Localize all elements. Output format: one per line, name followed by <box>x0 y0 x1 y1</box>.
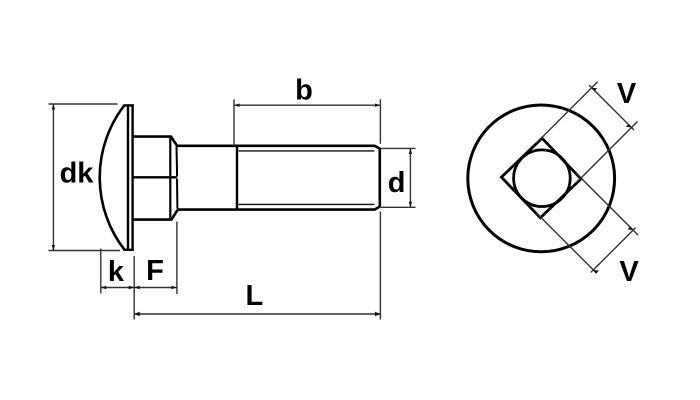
svg-text:k: k <box>108 256 125 288</box>
svg-text:dk: dk <box>60 158 95 190</box>
svg-text:V: V <box>617 78 637 110</box>
svg-text:b: b <box>295 75 313 107</box>
svg-text:F: F <box>146 255 164 287</box>
svg-text:d: d <box>388 167 406 199</box>
svg-text:L: L <box>245 280 263 312</box>
svg-text:V: V <box>619 256 639 288</box>
